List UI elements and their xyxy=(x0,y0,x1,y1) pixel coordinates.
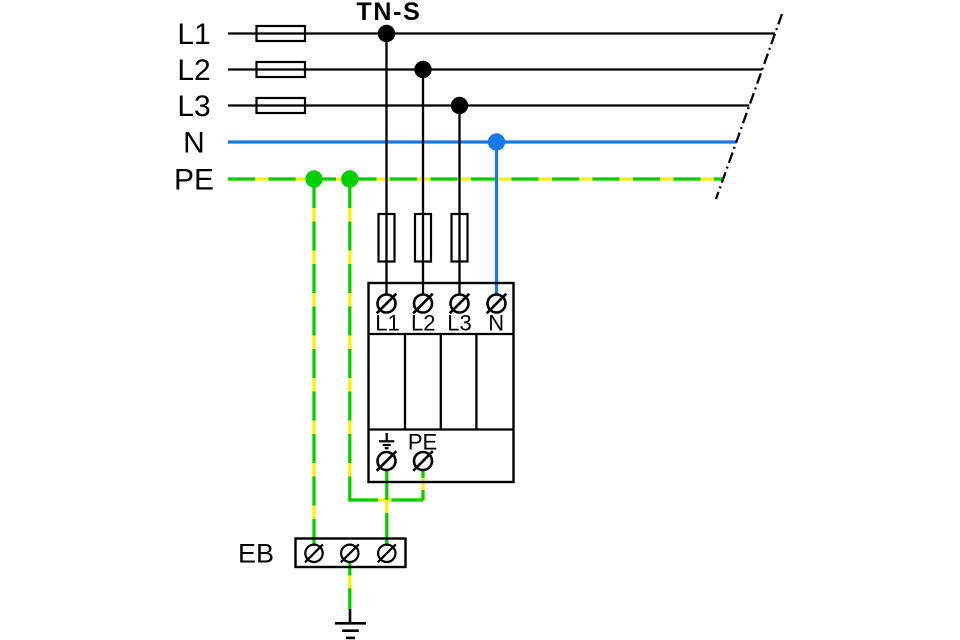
wire drop L1 xyxy=(385,34,387,304)
boundary break line (dash-dot) xyxy=(716,14,782,199)
svg-text:L3: L3 xyxy=(177,90,210,123)
earth symbol inside SPD xyxy=(379,433,394,448)
terminal L2 of SPD xyxy=(413,294,433,314)
ground symbol xyxy=(335,623,366,638)
terminal N of SPD xyxy=(487,294,507,314)
svg-text:L2: L2 xyxy=(411,311,435,336)
svg-text:L2: L2 xyxy=(177,54,210,87)
svg-text:N: N xyxy=(183,127,205,160)
SPD internal line bottom xyxy=(369,428,514,430)
node junction L3 xyxy=(451,97,468,114)
wire drop L3 xyxy=(458,106,460,304)
svg-text:L1: L1 xyxy=(177,18,210,51)
wire L1 bus xyxy=(228,32,775,34)
fuse F5 vertical on L2 drop xyxy=(415,214,431,262)
wire PE drop 2 (PE bus to SPD PE terminal) xyxy=(348,179,423,500)
fuse F3 on L3 xyxy=(257,98,306,113)
fuse F6 vertical on L3 drop xyxy=(452,214,468,262)
svg-text:PE: PE xyxy=(174,164,214,197)
svg-text:EB: EB xyxy=(238,539,274,569)
wire ground stem (black) xyxy=(349,609,352,622)
terminal PE of SPD xyxy=(413,451,433,471)
wire L2 bus xyxy=(228,68,762,70)
node junction N xyxy=(488,133,505,150)
node junction PE-1 xyxy=(305,170,322,187)
svg-text:N: N xyxy=(488,311,504,336)
wire N bus xyxy=(228,140,736,143)
terminal 2 of EB xyxy=(341,544,359,562)
wire drop L2 xyxy=(422,70,424,304)
node junction L2 xyxy=(414,61,431,78)
wire drop N xyxy=(495,142,498,303)
SPD U1 box xyxy=(369,283,514,482)
svg-text:TN-S: TN-S xyxy=(356,0,421,26)
fuse F1 on L1 xyxy=(257,26,306,41)
SPD module divider 1 xyxy=(404,334,406,430)
wire L3 bus xyxy=(228,104,749,106)
wire EB to ground (green part) xyxy=(348,553,351,609)
svg-text:L3: L3 xyxy=(447,311,471,336)
node junction PE-2 xyxy=(341,170,358,187)
wire PE bus xyxy=(228,177,723,180)
SPD module divider 3 xyxy=(475,334,477,430)
terminal 1 of EB xyxy=(305,544,323,562)
equipotential bonding bar EB box xyxy=(296,539,406,568)
terminal 3 of EB xyxy=(378,544,396,562)
terminal L3 of SPD xyxy=(450,294,470,314)
wire PE drop 1 (PE bus to EB) xyxy=(312,179,315,553)
fuse F4 vertical on L1 drop xyxy=(379,214,395,262)
SPD module divider 2 xyxy=(440,334,442,430)
node junction L1 xyxy=(378,25,395,42)
terminal earth of SPD xyxy=(377,451,397,471)
wire SPD earth terminal to EB xyxy=(385,461,388,553)
SPD internal line top xyxy=(369,333,514,335)
fuse F2 on L2 xyxy=(257,62,306,77)
terminal L1 of SPD xyxy=(377,294,397,314)
svg-text:L1: L1 xyxy=(375,311,399,336)
